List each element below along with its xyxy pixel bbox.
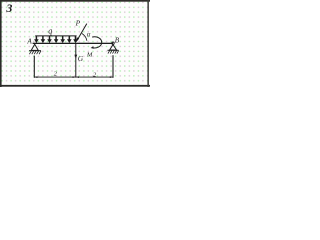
support A (pin triangle) [31,44,38,50]
moment M arrowhead [91,46,94,49]
support B hatching [108,50,119,53]
dimension arrowheads [34,76,37,78]
cell border bottom [0,85,150,87]
force G line (and dimension extension at C) [75,44,77,78]
dimension line [34,76,113,78]
support B triangle [110,45,117,50]
dimension extension line at A [33,56,35,78]
svg-text:q: q [48,26,52,35]
svg-text:3: 3 [5,1,12,15]
cell border top [0,0,150,2]
beam AB [33,43,114,44]
distributed load q top line [35,35,76,37]
node B pin circle [112,42,114,44]
force P line [78,24,87,39]
support A hatching [29,51,41,54]
svg-text:P: P [75,19,81,28]
svg-text:α: α [87,31,91,38]
cell border right [147,0,149,87]
angle alpha arc [82,34,87,41]
force P arrowhead [76,37,79,42]
dimension extension line at B [112,55,114,78]
moment M arc [92,37,102,48]
svg-text:G: G [78,54,84,63]
support B ground line [108,49,119,51]
svg-text:B: B [115,37,120,45]
cell border left [0,0,2,87]
svg-text:M: M [86,51,93,58]
svg-text:A: A [26,37,32,45]
distributed load arrows [34,36,78,43]
support A ground line [29,50,41,52]
force G arrowhead [74,55,77,59]
svg-text:2: 2 [54,71,58,78]
